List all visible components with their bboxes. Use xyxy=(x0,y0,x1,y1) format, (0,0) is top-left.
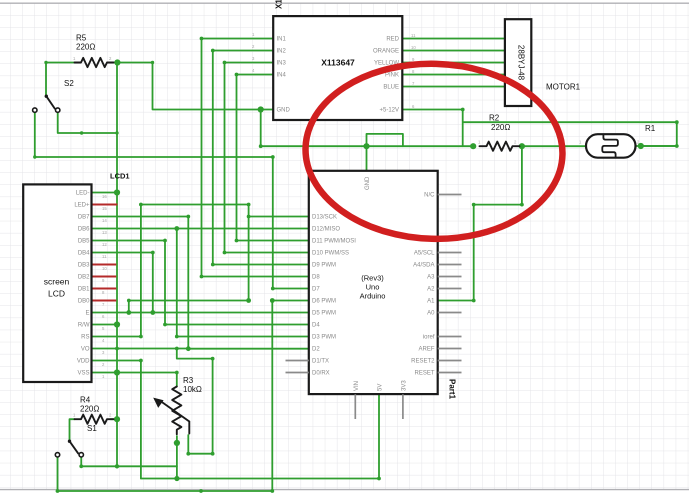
svg-text:D12/MISO: D12/MISO xyxy=(312,227,340,233)
wire LCD DB2 (red) xyxy=(93,276,117,278)
svg-text:D10 PWM/SS: D10 PWM/SS xyxy=(312,251,349,257)
svg-text:R3: R3 xyxy=(183,376,194,385)
wire D7 vertical down to Arduino D7 xyxy=(273,157,309,289)
wire LCD DB0 (red) xyxy=(93,300,117,302)
pin AREF stub xyxy=(438,348,462,350)
potentiometer R3 wiper arrow xyxy=(162,402,190,434)
svg-text:S1: S1 xyxy=(87,424,97,433)
svg-text:screen: screen xyxy=(44,277,70,287)
top border xyxy=(0,2,689,4)
pin RESET2 stub xyxy=(438,360,462,362)
junction VSS bus xyxy=(114,369,120,375)
switch S1 contact right xyxy=(79,453,83,457)
svg-text:RED: RED xyxy=(386,37,399,43)
svg-text:A1: A1 xyxy=(427,299,435,305)
svg-text:ioref: ioref xyxy=(423,335,435,341)
motor MOTOR1 body xyxy=(505,19,531,106)
pin A4/SDA stub xyxy=(438,264,462,266)
annotation red ellipse xyxy=(303,60,564,242)
svg-text:A3: A3 xyxy=(427,275,435,281)
wire LCD VO row xyxy=(93,348,189,350)
svg-text:IN1: IN1 xyxy=(277,37,287,43)
svg-text:DB1: DB1 xyxy=(78,287,90,293)
wire S2 left contact to D7 long horizontal xyxy=(35,112,273,157)
wire LDR right to R1 node xyxy=(636,145,677,147)
red wires xyxy=(93,205,118,301)
switch S2 contact right xyxy=(56,108,60,112)
svg-text:D6 PWM: D6 PWM xyxy=(312,299,336,305)
wire GND bus vertical (LCD side) xyxy=(116,63,118,467)
pin D0/RX stub xyxy=(286,372,309,374)
wire LCD DB7 to Arduino D2 xyxy=(93,217,309,349)
pin N/C stub xyxy=(438,194,462,196)
svg-text:RESET2: RESET2 xyxy=(411,359,435,365)
wire LCD DB3 (red) xyxy=(93,264,117,266)
svg-text:D0/RX: D0/RX xyxy=(312,371,330,377)
pin A0 stub xyxy=(438,312,462,314)
wire LCD DB4 down to E row xyxy=(93,253,153,313)
svg-text:11: 11 xyxy=(411,33,416,38)
svg-text:Part1: Part1 xyxy=(448,379,457,400)
switch S2 pivot xyxy=(45,95,48,98)
wire IC motor YELLOW xyxy=(403,62,505,64)
svg-text:X1: X1 xyxy=(275,0,284,9)
pin RESET stub xyxy=(438,372,462,374)
svg-text:E: E xyxy=(85,311,89,317)
svg-text:D13/SCK: D13/SCK xyxy=(312,215,337,221)
svg-text:VIN: VIN xyxy=(354,381,360,391)
svg-text:10: 10 xyxy=(102,266,107,271)
pin D1/TX stub xyxy=(286,360,309,362)
wire LCD DB5 to Arduino D4 xyxy=(93,241,309,325)
wire IC IN2 to Arduino D9 xyxy=(213,51,309,265)
svg-text:Arduino: Arduino xyxy=(360,292,386,301)
switch S1 pivot xyxy=(68,440,71,443)
svg-text:220Ω: 220Ω xyxy=(76,43,95,52)
resistor R4 220 ohm xyxy=(75,415,114,424)
pin ioref stub xyxy=(438,336,462,338)
svg-text:D2: D2 xyxy=(312,347,320,353)
svg-text:14: 14 xyxy=(102,218,107,223)
switch S1 contact left xyxy=(55,453,59,457)
wire R5 right lead to GND-bus junction xyxy=(111,62,118,64)
photoresistor R1 body xyxy=(586,134,636,158)
svg-text:BLUE: BLUE xyxy=(383,85,399,91)
svg-text:LCD1: LCD1 xyxy=(110,172,130,181)
pin 3V3 stub xyxy=(402,394,404,419)
junction Arduino GND rail xyxy=(363,143,369,149)
wire E branch up and across xyxy=(129,301,249,313)
wire IC IN1 to Arduino D8 xyxy=(202,39,309,277)
svg-text:GND: GND xyxy=(365,176,371,190)
svg-text:(Rev3): (Rev3) xyxy=(361,274,384,283)
wire S1 right contact to bus/R3 bottom xyxy=(81,457,177,466)
wire VO jog to potentiometer wiper xyxy=(177,349,213,454)
bend dots xyxy=(44,61,47,64)
wire S2 right contact to GND bus xyxy=(58,112,117,133)
svg-text:+5-12V: +5-12V xyxy=(379,108,399,114)
svg-text:DB6: DB6 xyxy=(78,227,90,233)
wire S1 left contact to bottom rail to Arduino D6 xyxy=(58,301,309,492)
wire LCD VSS to R3 top xyxy=(93,373,177,387)
wire LCD DB1 (red) xyxy=(93,288,117,290)
junction LED- bus xyxy=(114,189,120,195)
bottom border xyxy=(0,489,689,491)
junction R2 right xyxy=(519,143,525,149)
switch S2 lever xyxy=(46,96,55,108)
resistor R5 220 ohm xyxy=(75,58,114,67)
svg-text:VSS: VSS xyxy=(77,371,89,377)
svg-text:IN2: IN2 xyxy=(277,49,287,55)
svg-text:DB7: DB7 xyxy=(78,215,90,221)
svg-text:GND: GND xyxy=(277,108,291,114)
svg-text:5V: 5V xyxy=(378,384,384,391)
svg-text:R4: R4 xyxy=(80,396,91,405)
junction R3/5V rail xyxy=(174,476,179,481)
junction IC GND xyxy=(258,106,264,112)
wire IC motor ORANGE xyxy=(403,50,505,52)
wire R4 right lead to GND bus xyxy=(111,418,118,420)
svg-text:A4/SDA: A4/SDA xyxy=(413,263,434,269)
wire net R5-GND: junction to IC GND pin xyxy=(117,63,273,110)
svg-text:D9 PWM: D9 PWM xyxy=(312,263,336,269)
wire R4 left lead down to S1 pivot xyxy=(70,419,75,440)
svg-text:A2: A2 xyxy=(427,287,435,293)
svg-text:LED+: LED+ xyxy=(74,203,90,209)
svg-text:DB5: DB5 xyxy=(78,239,90,245)
pin A2 stub xyxy=(438,288,462,290)
wire R2 right to LDR left xyxy=(522,145,586,147)
junction R3 bottom xyxy=(174,440,180,446)
svg-text:11: 11 xyxy=(102,254,107,259)
svg-text:D4: D4 xyxy=(312,323,320,329)
wire DB6 vertical down to Arduino D3 xyxy=(177,229,309,337)
svg-text:LCD: LCD xyxy=(48,289,65,299)
wire IC motor PINK xyxy=(403,74,505,76)
svg-text:12: 12 xyxy=(102,242,107,247)
LCD1 body xyxy=(23,184,91,382)
svg-text:DB2: DB2 xyxy=(78,275,90,281)
svg-text:220Ω: 220Ω xyxy=(80,405,99,414)
svg-text:A5/SCL: A5/SCL xyxy=(414,251,435,257)
wire IC IN4 to Arduino D11 xyxy=(237,75,309,241)
wire IC motor RED xyxy=(403,38,505,40)
junction R2 left xyxy=(470,143,476,149)
wire R3 bottom terminal down to 5V rail xyxy=(176,436,178,479)
switch S2 contact left xyxy=(33,108,37,112)
svg-text:10: 10 xyxy=(411,45,416,50)
junction R4 bus xyxy=(114,416,120,422)
wire IC +5-12V to top-right rail xyxy=(403,110,677,147)
svg-text:3V3: 3V3 xyxy=(402,380,408,391)
pin VIN stub xyxy=(354,394,356,419)
wire R2 right down-jog to Arduino A1 xyxy=(438,146,522,300)
svg-text:D7: D7 xyxy=(312,287,320,293)
svg-text:R1: R1 xyxy=(645,124,656,133)
IC U1 X113647 body xyxy=(273,16,402,120)
svg-text:220Ω: 220Ω xyxy=(491,123,510,132)
svg-text:RESET: RESET xyxy=(414,371,434,377)
svg-text:D1/TX: D1/TX xyxy=(312,359,329,365)
svg-text:Uno: Uno xyxy=(366,283,380,292)
wire LCD DB6 to corner, and D12 feed xyxy=(93,228,309,230)
potentiometer R3 10k body xyxy=(172,387,181,435)
pin A5/SCL stub xyxy=(438,252,462,254)
wire mid riser with D13 branch xyxy=(93,205,309,337)
resistor R2 220 ohm xyxy=(480,142,520,151)
junction bus bottom xyxy=(115,464,119,468)
wire IC GND down to main GND rail xyxy=(260,110,262,147)
wire IC IN3 to Arduino D10 xyxy=(225,63,309,253)
wire Arduino GND pin stub xyxy=(366,146,368,171)
svg-text:N/C: N/C xyxy=(424,193,435,199)
svg-text:RS: RS xyxy=(81,335,89,341)
wire LCD VDD down to 5V rail xyxy=(93,361,141,479)
svg-text:IN4: IN4 xyxy=(277,73,287,79)
wire GND rail staple hop xyxy=(367,134,403,146)
wire main GND rail to R2 left xyxy=(261,145,474,147)
wire LCD E to Arduino D5 xyxy=(93,312,309,314)
wire LCD R/W to GND bus xyxy=(93,324,118,326)
wire IC motor BLUE xyxy=(403,86,505,88)
Arduino Part1 body xyxy=(309,171,438,394)
switch S1 lever xyxy=(70,441,79,453)
svg-text:DB3: DB3 xyxy=(78,263,90,269)
svg-text:13: 13 xyxy=(102,230,107,235)
svg-text:R2: R2 xyxy=(489,114,500,123)
svg-text:15: 15 xyxy=(102,206,107,211)
photoresistor R1 serpentine element xyxy=(602,135,618,158)
svg-text:D11 PWM/MOSI: D11 PWM/MOSI xyxy=(312,239,356,245)
svg-text:AREF: AREF xyxy=(418,347,434,353)
svg-text:16: 16 xyxy=(102,194,107,199)
junction R/W bus xyxy=(114,321,120,327)
wire LCD LED- to GND bus xyxy=(93,192,118,194)
junction LDR right / R1 xyxy=(638,143,644,149)
svg-text:R/W: R/W xyxy=(78,323,90,329)
svg-text:DB0: DB0 xyxy=(78,299,90,305)
pin A3 stub xyxy=(438,276,462,278)
svg-text:D3 PWM: D3 PWM xyxy=(312,335,336,341)
svg-text:DB4: DB4 xyxy=(78,251,90,257)
svg-text:28BYJ-48: 28BYJ-48 xyxy=(517,45,526,81)
svg-text:MOTOR1: MOTOR1 xyxy=(546,83,581,92)
unconnected gray pin stubs xyxy=(286,195,462,420)
svg-text:A0: A0 xyxy=(427,311,435,317)
svg-text:ORANGE: ORANGE xyxy=(373,49,399,55)
wire R5 left to switch S2 pivot xyxy=(46,63,75,95)
wire 5V rail from VDD corner to Arduino 5V pin xyxy=(141,394,379,478)
svg-text:D8: D8 xyxy=(312,275,320,281)
svg-text:S2: S2 xyxy=(64,79,74,88)
svg-text:VO: VO xyxy=(81,347,90,353)
svg-text:D5 PWM: D5 PWM xyxy=(312,311,336,317)
svg-text:LED-: LED- xyxy=(76,191,90,197)
svg-text:R5: R5 xyxy=(76,34,87,43)
junction R5-bus xyxy=(114,59,120,65)
svg-text:PINK: PINK xyxy=(385,73,399,79)
svg-text:10kΩ: 10kΩ xyxy=(183,385,202,394)
svg-text:X113647: X113647 xyxy=(321,58,355,68)
wire LCD LED+ (red) xyxy=(93,204,118,206)
svg-text:VDD: VDD xyxy=(77,359,90,365)
svg-text:IN3: IN3 xyxy=(277,61,287,67)
